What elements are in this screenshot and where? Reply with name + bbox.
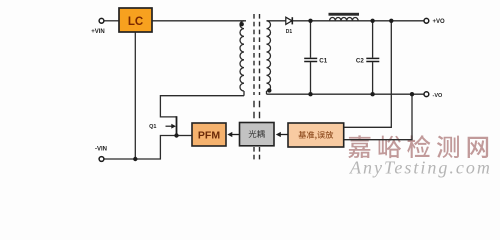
- terminal +VO: [424, 18, 429, 23]
- wire feedback from +VO rail down to reference box: [344, 21, 392, 128]
- junction dot C1 top: [308, 19, 312, 23]
- wire Q1 source to -VIN rail: [104, 136, 177, 160]
- capacitor C2: [366, 57, 379, 59]
- wire primary bottom to Q1 drain: [160, 96, 244, 117]
- svg-text:PFM: PFM: [198, 130, 220, 142]
- svg-text:AnyTesting.com: AnyTesting.com: [349, 158, 492, 178]
- wire C1 bottom lead: [310, 62, 312, 94]
- svg-text:-VIN: -VIN: [95, 147, 107, 153]
- wire diode to +VO: [292, 20, 424, 22]
- terminal +VIN: [99, 18, 104, 23]
- junction dot primary/LC on -VIN rail: [133, 157, 137, 161]
- svg-text:+VIN: +VIN: [91, 29, 105, 35]
- transistor Q1 channel: [176, 116, 178, 135]
- wire LC bottom to -VIN rail: [134, 32, 136, 159]
- wire primary bottom lead: [243, 91, 245, 96]
- isolation barrier dashed lines above optocoupler: [254, 101, 260, 123]
- transistor Q1 gate arrow: [166, 125, 173, 127]
- wire feedback from -VO rail down to reference box: [344, 94, 412, 140]
- wire +VIN to LC: [104, 20, 119, 22]
- junction dot feedback tap on +VO rail: [389, 19, 393, 23]
- wire -VO rail: [267, 93, 425, 95]
- svg-text:LC: LC: [128, 16, 143, 28]
- LC filter block: [119, 8, 152, 32]
- wire secondary bottom lead: [266, 91, 268, 94]
- transformer primary phase dot: [240, 22, 244, 26]
- output inductor winding: [330, 17, 359, 20]
- svg-text:Q1: Q1: [149, 124, 156, 130]
- arrow optocoupler to PFM: [232, 134, 240, 136]
- transformer T1 primary winding: [240, 21, 244, 91]
- wire C2 top lead: [372, 21, 374, 58]
- optocoupler block 光耦: [240, 123, 275, 146]
- junction dot C2 top: [370, 19, 374, 23]
- junction dot feedback tap on -VO rail: [410, 92, 414, 96]
- junction dot Q1 source node: [174, 133, 178, 137]
- reference / error amp block 基准,误放: [288, 123, 344, 147]
- watermark text 嘉峪检测网: [348, 135, 488, 158]
- svg-text:C1: C1: [319, 57, 327, 64]
- transformer secondary phase dot: [267, 88, 271, 92]
- svg-text:C2: C2: [356, 57, 364, 64]
- wire LC to transformer primary top: [152, 20, 246, 22]
- capacitor C1: [304, 57, 317, 59]
- junction dot C2 bottom: [370, 92, 374, 96]
- transformer core dashed lines: [254, 14, 260, 95]
- diode D1: [286, 17, 292, 24]
- isolation barrier dashed lines below optocoupler: [254, 147, 260, 160]
- transformer secondary winding: [267, 21, 271, 91]
- PFM controller block: [192, 123, 226, 146]
- terminal -VO: [424, 92, 429, 97]
- svg-text:+VO: +VO: [433, 19, 446, 25]
- wire C2 bottom lead: [372, 62, 374, 94]
- junction dot C1 bottom: [308, 92, 312, 96]
- output inductor core bar: [329, 13, 360, 16]
- arrow reference to optocoupler: [280, 134, 288, 136]
- svg-text:-VO: -VO: [433, 93, 444, 99]
- terminal -VIN: [99, 157, 104, 162]
- svg-text:D1: D1: [286, 29, 293, 35]
- wire Q1 source node to PFM: [177, 135, 193, 137]
- wire C1 top lead: [310, 21, 312, 58]
- wire secondary top to diode: [267, 20, 286, 22]
